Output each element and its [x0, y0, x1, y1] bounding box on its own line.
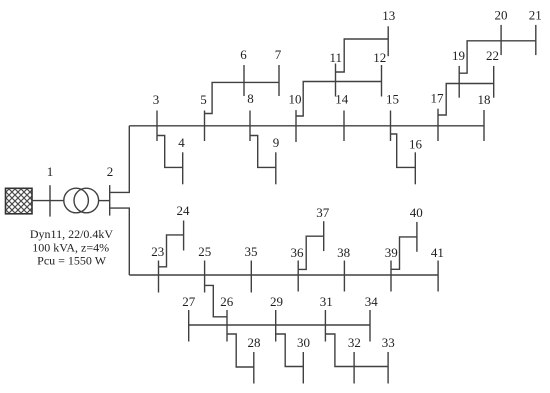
bus 29: [275, 310, 277, 342]
wire bus2 to upper feeder: [110, 126, 130, 193]
wire 31 to 32 and 33: [325, 334, 388, 367]
bus 1: [49, 185, 51, 216]
wire 19 to 20 and 21: [459, 41, 536, 73]
lower feeder wire: [129, 274, 438, 276]
bus 39: [390, 261, 392, 292]
bus 8: [249, 111, 251, 142]
upper feeder wire: [129, 125, 484, 127]
svg-text:36: 36: [291, 245, 305, 260]
bus 30: [302, 352, 304, 384]
svg-text:24: 24: [177, 203, 191, 218]
wire 3 to 4: [157, 136, 183, 168]
svg-text:38: 38: [337, 245, 350, 260]
bus 27: [188, 310, 190, 342]
svg-text:Dyn11, 22/0.4kV: Dyn11, 22/0.4kV: [30, 227, 114, 241]
bus 40: [416, 222, 418, 252]
bus 14: [343, 111, 345, 142]
svg-text:6: 6: [240, 47, 247, 62]
svg-text:23: 23: [151, 244, 164, 259]
svg-text:27: 27: [182, 294, 196, 309]
bus 15: [390, 111, 392, 142]
svg-text:8: 8: [247, 91, 254, 106]
svg-text:29: 29: [270, 294, 283, 309]
bus 33: [387, 352, 389, 384]
bus 28: [253, 352, 255, 384]
svg-text:14: 14: [335, 92, 349, 107]
bus 25: [204, 261, 206, 293]
wire 15 to 16: [391, 134, 416, 167]
wire 36 to 37: [298, 236, 324, 269]
bus 5: [204, 111, 206, 142]
bus 17: [437, 109, 439, 141]
bus 7: [278, 65, 280, 96]
svg-text:1: 1: [47, 164, 54, 179]
bus 18: [483, 110, 485, 141]
bus 2: [109, 185, 111, 216]
bus 3: [156, 111, 158, 142]
bus 38: [343, 261, 345, 292]
bus 13: [387, 26, 389, 56]
svg-text:19: 19: [452, 48, 465, 63]
svg-text:26: 26: [220, 294, 234, 309]
sub feeder wire 27 to 34: [189, 324, 370, 326]
svg-text:34: 34: [365, 294, 379, 309]
svg-text:21: 21: [529, 8, 542, 23]
bus 24: [183, 221, 185, 251]
svg-text:37: 37: [316, 205, 330, 220]
transformer T1: [64, 188, 89, 213]
svg-text:10: 10: [289, 92, 302, 107]
wire 26 to 28: [227, 334, 254, 367]
wire 39 to 40: [391, 237, 417, 269]
svg-text:40: 40: [410, 205, 423, 220]
svg-text:7: 7: [275, 47, 282, 62]
bus 36: [297, 261, 299, 292]
svg-text:12: 12: [373, 50, 386, 65]
svg-text:11: 11: [330, 50, 343, 65]
bus 20: [500, 25, 502, 55]
bus 16: [414, 152, 416, 184]
wire transformer to bus 2: [99, 200, 110, 202]
svg-text:35: 35: [245, 244, 258, 259]
svg-text:100 kVA, z=4%: 100 kVA, z=4%: [32, 240, 109, 254]
svg-text:31: 31: [320, 294, 333, 309]
svg-text:2: 2: [107, 164, 114, 179]
svg-text:30: 30: [297, 335, 310, 350]
svg-text:3: 3: [153, 92, 160, 107]
wire 25 to 26: [205, 285, 227, 316]
svg-text:4: 4: [178, 135, 185, 150]
bus 21: [535, 25, 537, 55]
bus 10: [295, 110, 297, 142]
svg-text:22: 22: [486, 48, 499, 63]
svg-text:32: 32: [348, 335, 361, 350]
svg-text:18: 18: [478, 92, 491, 107]
wire 10 to 11 and 12: [296, 82, 382, 117]
svg-text:16: 16: [409, 137, 423, 152]
bus 4: [182, 152, 184, 184]
bus 12: [381, 65, 383, 97]
bus 11: [335, 64, 337, 97]
bus 31: [324, 310, 326, 342]
wire square to transformer: [32, 200, 64, 202]
bus 26: [226, 310, 228, 342]
svg-text:15: 15: [386, 92, 399, 107]
svg-text:5: 5: [200, 92, 207, 107]
source grid square: [6, 188, 33, 214]
bus 32: [353, 352, 355, 384]
wire 8 to 9: [250, 136, 276, 168]
wire 29 to 30: [276, 334, 304, 367]
bus 23: [158, 261, 160, 293]
svg-text:20: 20: [495, 8, 508, 23]
bus 34: [369, 310, 371, 342]
svg-text:33: 33: [382, 335, 395, 350]
bus 35: [250, 261, 252, 293]
wire 23 to 24: [159, 235, 184, 267]
wire 17 to 19 and 22: [438, 84, 494, 116]
svg-text:41: 41: [431, 245, 444, 260]
svg-text:9: 9: [273, 135, 280, 150]
bus 41: [437, 261, 439, 292]
svg-text:Pcu = 1550 W: Pcu = 1550 W: [37, 254, 107, 268]
wire 11 to 13: [336, 39, 389, 72]
wire bus2 to lower feeder: [110, 208, 130, 275]
bus 9: [275, 152, 277, 184]
svg-text:25: 25: [198, 244, 211, 259]
svg-text:39: 39: [385, 245, 398, 260]
bus 6: [243, 65, 245, 96]
svg-text:17: 17: [431, 91, 445, 106]
wire 5 to 6 and 7: [205, 82, 280, 113]
bus 22: [493, 66, 495, 98]
bus 19: [458, 66, 460, 98]
bus 37: [323, 221, 325, 251]
svg-text:13: 13: [382, 8, 395, 23]
svg-text:28: 28: [248, 335, 261, 350]
